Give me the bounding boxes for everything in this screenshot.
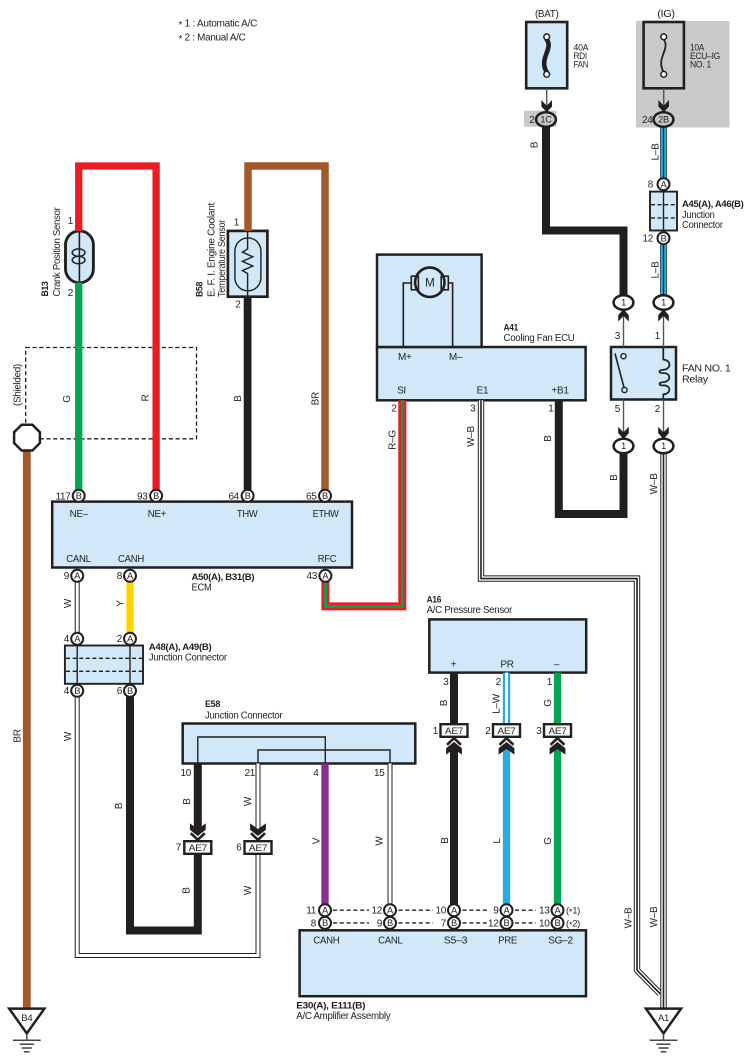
svg-text:2: 2 (68, 288, 74, 299)
svg-text:Temperature Sensor: Temperature Sensor (217, 219, 228, 297)
svg-text:(Shielded): (Shielded) (13, 364, 24, 406)
svg-text:B13: B13 (40, 282, 51, 297)
svg-text:W: W (243, 796, 254, 806)
svg-text:3: 3 (536, 726, 542, 737)
svg-text:M–: M– (449, 352, 463, 363)
svg-text:AE7: AE7 (189, 843, 207, 854)
svg-text:3: 3 (443, 677, 449, 688)
svg-text:E30(A), E111(B): E30(A), E111(B) (296, 1001, 365, 1012)
svg-text:ECM: ECM (192, 582, 212, 593)
svg-text:9: 9 (493, 906, 499, 917)
svg-text:(*1): (*1) (566, 905, 580, 918)
svg-text:W–B: W–B (649, 473, 660, 494)
svg-text:1: 1 (433, 726, 439, 737)
svg-text:G: G (543, 699, 554, 707)
svg-text:A/C Amplifier Assembly: A/C Amplifier Assembly (296, 1011, 390, 1022)
svg-text:CANL: CANL (66, 554, 91, 565)
svg-text:Junction Connector: Junction Connector (205, 710, 283, 721)
svg-text:10: 10 (180, 768, 191, 779)
svg-text:A: A (451, 905, 458, 916)
svg-text:Junction Connector: Junction Connector (149, 653, 228, 664)
svg-text:2: 2 (485, 726, 491, 737)
svg-text:E. F. I. Engine Coolant: E. F. I. Engine Coolant (207, 202, 218, 297)
svg-text:1: 1 (68, 216, 74, 227)
svg-text:A: A (74, 570, 81, 581)
svg-text:A: A (127, 633, 134, 644)
svg-text:1: 1 (621, 298, 626, 308)
svg-text:SG–2: SG–2 (548, 936, 573, 947)
svg-text:2: 2 (235, 299, 241, 310)
svg-text:2: 2 (655, 404, 661, 415)
svg-text:6: 6 (236, 843, 242, 854)
svg-text:(*2): (*2) (566, 917, 580, 930)
svg-text:PR: PR (500, 659, 513, 670)
svg-text:1: 1 (548, 403, 554, 414)
svg-text:7: 7 (441, 918, 447, 929)
svg-text:CANH: CANH (118, 554, 144, 565)
svg-text:65: 65 (306, 491, 317, 502)
svg-text:7: 7 (176, 843, 182, 854)
svg-text:L: L (492, 838, 503, 844)
svg-text:B: B (440, 837, 451, 844)
svg-text:B: B (182, 798, 193, 805)
svg-text:1: 1 (234, 218, 240, 229)
svg-text:G: G (543, 837, 554, 845)
svg-text:Y: Y (116, 600, 127, 607)
svg-text:1: 1 (661, 298, 666, 308)
svg-text:B: B (543, 435, 554, 442)
svg-text:A1: A1 (658, 1013, 669, 1024)
svg-text:24: 24 (642, 115, 653, 126)
svg-text:L–W: L–W (492, 693, 503, 714)
svg-text:THW: THW (237, 509, 258, 520)
svg-text:A: A (387, 905, 394, 916)
svg-text:W: W (63, 731, 74, 741)
svg-text:L–B: L–B (651, 143, 662, 161)
svg-text:21: 21 (244, 768, 255, 779)
svg-text:NO. 1: NO. 1 (690, 58, 711, 69)
svg-text:B: B (451, 917, 457, 928)
svg-text:12: 12 (642, 234, 653, 245)
svg-text:B: B (609, 474, 620, 481)
svg-text:W–B: W–B (466, 425, 477, 446)
svg-text:W: W (243, 885, 254, 895)
svg-text:B: B (233, 395, 244, 402)
svg-text:BR: BR (311, 392, 322, 405)
svg-text:B: B (114, 802, 125, 809)
svg-text:1: 1 (621, 441, 626, 451)
svg-text:B: B (127, 685, 133, 696)
svg-text:B: B (74, 685, 80, 696)
svg-text:W: W (374, 836, 385, 846)
svg-text:B: B (530, 141, 541, 148)
svg-text:W: W (63, 598, 74, 608)
svg-text:3: 3 (470, 403, 476, 414)
svg-text:B4: B4 (21, 1013, 32, 1024)
svg-text:A: A (127, 570, 134, 581)
svg-text:Crank Position Sensor: Crank Position Sensor (52, 207, 63, 297)
svg-text:5: 5 (615, 404, 621, 415)
svg-text:Connector: Connector (682, 220, 724, 231)
svg-text:11: 11 (306, 906, 317, 917)
svg-text:(BAT): (BAT) (535, 9, 559, 20)
svg-text:A48(A), A49(B): A48(A), A49(B) (149, 642, 212, 653)
svg-text:10: 10 (539, 918, 550, 929)
svg-text:12: 12 (371, 906, 382, 917)
svg-text:Relay: Relay (682, 375, 708, 386)
svg-text:BR: BR (13, 729, 24, 742)
svg-text:SI: SI (397, 385, 406, 396)
svg-text:ETHW: ETHW (313, 509, 340, 520)
svg-text:L–B: L–B (651, 261, 662, 279)
svg-text:E1: E1 (477, 385, 489, 396)
svg-text:–: – (554, 659, 560, 670)
svg-text:A: A (661, 179, 668, 190)
svg-text:93: 93 (137, 491, 148, 502)
svg-text:V: V (312, 837, 323, 844)
svg-text:A: A (322, 570, 329, 581)
svg-text:4: 4 (64, 686, 70, 697)
svg-text:B: B (504, 917, 510, 928)
svg-text:G: G (62, 395, 73, 403)
svg-text:B: B (153, 490, 159, 501)
svg-text:A45(A), A46(B): A45(A), A46(B) (682, 199, 744, 210)
svg-text:AE7: AE7 (497, 726, 515, 737)
svg-text:S5–3: S5–3 (444, 936, 468, 947)
svg-text:CANH: CANH (313, 936, 339, 947)
svg-text:CANL: CANL (378, 936, 403, 947)
svg-text:A: A (504, 905, 511, 916)
svg-text:9: 9 (377, 918, 383, 929)
svg-text:M: M (425, 278, 434, 290)
svg-text:NE–: NE– (70, 509, 89, 520)
svg-text:AE7: AE7 (249, 843, 267, 854)
svg-text:43: 43 (306, 571, 317, 582)
svg-text:B58: B58 (194, 281, 205, 297)
svg-text:(IG): (IG) (657, 9, 675, 20)
svg-text:A: A (74, 633, 81, 644)
svg-text:4: 4 (313, 768, 319, 779)
svg-text:2: 2 (117, 634, 123, 645)
svg-text:2: 2 (529, 115, 535, 126)
svg-text:64: 64 (228, 491, 239, 502)
svg-text:2: 2 (496, 677, 502, 688)
svg-text:1: 1 (661, 441, 666, 451)
svg-text:12: 12 (488, 918, 499, 929)
svg-text:W–B: W–B (624, 907, 635, 928)
svg-text:W–B: W–B (649, 906, 660, 927)
svg-text:A50(A), B31(B): A50(A), B31(B) (192, 572, 255, 583)
svg-text:+B1: +B1 (551, 385, 569, 396)
svg-text:6: 6 (117, 686, 123, 697)
svg-text:13: 13 (539, 906, 550, 917)
svg-text:10: 10 (435, 906, 446, 917)
svg-text:B: B (245, 490, 251, 501)
svg-text:RFC: RFC (318, 554, 337, 565)
svg-text:2: 2 (391, 403, 397, 414)
svg-text:3: 3 (615, 331, 621, 342)
svg-text:2B: 2B (658, 115, 669, 125)
svg-text:8: 8 (648, 180, 654, 191)
svg-text:A: A (322, 905, 329, 916)
svg-text:A41: A41 (504, 322, 519, 333)
svg-text:+: + (451, 659, 457, 670)
svg-text:R: R (141, 394, 152, 401)
svg-text:15: 15 (374, 768, 385, 779)
svg-text:B: B (661, 233, 667, 244)
svg-text:8: 8 (311, 918, 317, 929)
svg-text:1: 1 (547, 677, 553, 688)
svg-text:Cooling Fan ECU: Cooling Fan ECU (504, 333, 575, 344)
svg-text:FAN: FAN (574, 58, 589, 69)
svg-text:B: B (76, 490, 82, 501)
svg-text:1C: 1C (540, 115, 552, 125)
svg-text:NE+: NE+ (148, 509, 167, 520)
svg-text:A: A (555, 905, 562, 916)
svg-text:A/C Pressure Sensor: A/C Pressure Sensor (427, 605, 513, 616)
svg-text:4: 4 (64, 634, 70, 645)
svg-text:B: B (387, 917, 393, 928)
svg-text:117: 117 (55, 491, 71, 502)
svg-text:AE7: AE7 (445, 726, 463, 737)
svg-text:E58: E58 (205, 699, 221, 710)
svg-text:B: B (322, 490, 328, 501)
svg-text:* 2 : Manual A/C: * 2 : Manual A/C (179, 32, 246, 45)
svg-text:PRE: PRE (498, 936, 518, 947)
svg-text:B: B (439, 699, 450, 706)
svg-text:B: B (555, 917, 561, 928)
svg-text:9: 9 (64, 571, 70, 582)
svg-text:1: 1 (655, 331, 661, 342)
svg-text:B: B (322, 917, 328, 928)
svg-text:M+: M+ (398, 352, 412, 363)
svg-text:* 1 : Automatic A/C: * 1 : Automatic A/C (179, 19, 258, 32)
svg-text:R–G: R–G (388, 430, 399, 450)
svg-text:8: 8 (117, 571, 123, 582)
svg-text:AE7: AE7 (548, 726, 566, 737)
svg-text:B: B (182, 887, 193, 894)
svg-text:FAN NO. 1: FAN NO. 1 (682, 364, 731, 375)
